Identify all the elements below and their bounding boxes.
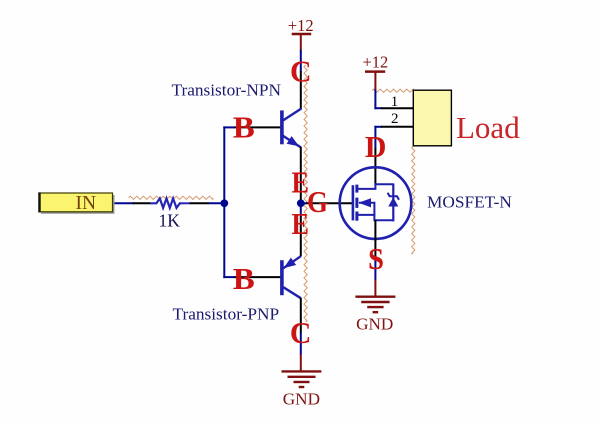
error squiggle along load right net [412, 146, 415, 254]
wire corner to load pin2 [374, 126, 382, 128]
power +12 right symbol [365, 72, 385, 90]
pin Q1 emitter [300, 147, 302, 200]
svg-text:G: G [307, 184, 328, 219]
MOSFET M1 gate bar [352, 185, 355, 220]
svg-text:B: B [233, 261, 255, 296]
svg-text:2: 2 [391, 111, 399, 127]
svg-text:GND: GND [283, 390, 320, 409]
wire node B to M1 gate [301, 202, 307, 204]
wire node A to Q1 base [223, 126, 235, 128]
transistor Q2 emitter arrow [284, 258, 297, 269]
svg-text:Load: Load [456, 110, 520, 145]
wire +12 right down [374, 89, 376, 109]
resistor R1 right lead [181, 202, 191, 204]
transistor Q1 emitter diagonal [283, 136, 301, 148]
svg-text:IN: IN [76, 193, 97, 214]
wire resistor to node A [209, 202, 226, 204]
node B junction dot [297, 199, 305, 207]
wire load pin2 down to M1 drain [374, 126, 376, 149]
svg-text:D: D [365, 129, 387, 164]
svg-text:MOSFET-N: MOSFET-N [427, 192, 512, 211]
svg-text:E: E [291, 206, 309, 241]
svg-text:+12: +12 [288, 16, 314, 35]
transistor Q2 collector diagonal [283, 287, 301, 298]
pin Q1 collector [300, 71, 302, 109]
svg-text:C: C [290, 54, 312, 89]
ground GND right [355, 280, 395, 313]
MOSFET M1 circle [340, 167, 412, 239]
wire node A vertical [223, 126, 225, 278]
MOSFET M1 body diode line [392, 184, 394, 222]
MOSFET M1 body diode triangle [388, 197, 398, 206]
error squiggle along +12 load net [372, 89, 413, 92]
wire +12 to Q1 collector [300, 50, 302, 72]
pin M1 gate [306, 202, 352, 204]
transistor Q2 emitter diagonal [283, 256, 301, 268]
pin Q2 base [235, 276, 282, 278]
svg-text:S: S [368, 241, 384, 276]
wire node A to Q2 base [223, 276, 235, 278]
resistor R1 left pin [133, 202, 151, 204]
pin load 1 [381, 107, 413, 109]
MOSFET M1 drain internal path [357, 184, 393, 189]
wire Q2 collector to GND [300, 333, 302, 355]
pin Q2 emitter [300, 216, 302, 256]
pin Q1 base [235, 126, 282, 128]
wire corner to load pin1 [374, 107, 382, 109]
svg-text:1: 1 [391, 94, 399, 110]
error squiggle along emitter net [304, 65, 307, 322]
resistor R1 right pin [190, 202, 209, 204]
port IN box [39, 193, 113, 212]
svg-text:1K: 1K [159, 211, 181, 231]
transistor Q1 emitter arrow [287, 136, 300, 146]
MOSFET M1 channel segments [355, 185, 358, 221]
pin Q2 collector [300, 298, 302, 334]
power +12 top symbol [292, 34, 312, 50]
svg-text:Transistor-PNP: Transistor-PNP [173, 305, 280, 324]
resistor R1 body [150, 198, 181, 208]
wire IN to resistor [112, 202, 134, 204]
pin load 2 [381, 126, 413, 128]
pin M1 drain [374, 148, 376, 185]
MOSFET M1 body arrow line [359, 203, 374, 216]
svg-text:Transistor-NPN: Transistor-NPN [172, 81, 282, 100]
port IN left bar [38, 192, 40, 212]
error squiggle over resistor R1 [129, 196, 214, 199]
transistor Q2 PNP base bar [280, 260, 284, 295]
MOSFET M1 body arrow [358, 198, 371, 207]
svg-text:GND: GND [356, 315, 393, 334]
node A junction dot [220, 199, 228, 207]
wire node B stub [300, 202, 302, 217]
transistor Q1 collector diagonal [283, 109, 302, 121]
pin M1 source [374, 220, 376, 257]
svg-text:C: C [290, 315, 312, 350]
transistor Q1 NPN base bar [280, 110, 284, 144]
load box [413, 90, 451, 146]
MOSFET M1 source internal path [357, 215, 393, 220]
port IN box shadow [41, 195, 115, 214]
svg-text:B: B [233, 110, 255, 145]
svg-text:+12: +12 [362, 53, 388, 72]
wire M1 source to GND [374, 257, 376, 281]
ground GND bottom [282, 354, 322, 387]
MOSFET M1 body diode cathode bar [388, 193, 399, 200]
